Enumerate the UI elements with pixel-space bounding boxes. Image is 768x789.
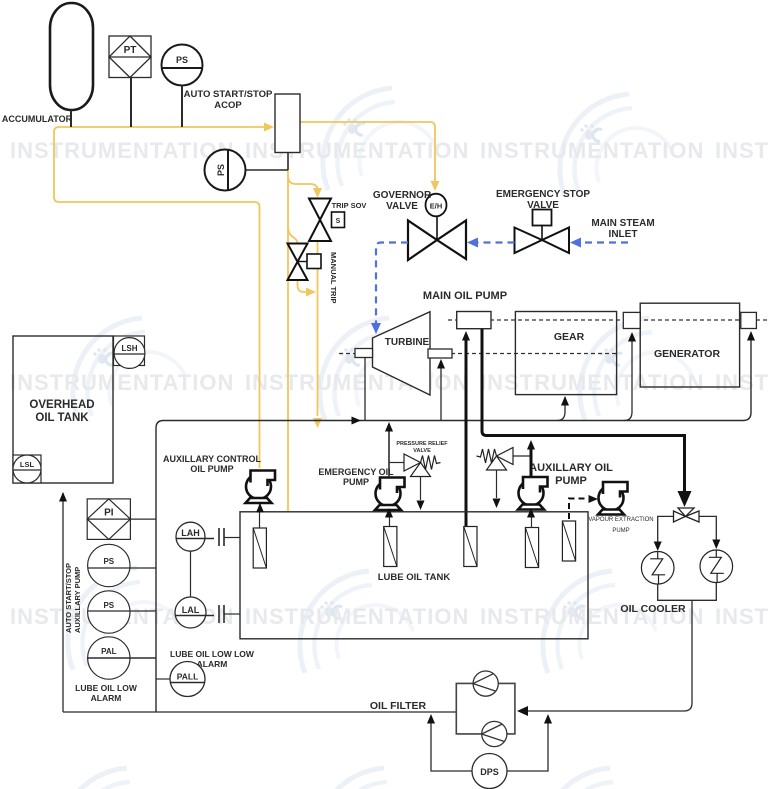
svg-text:PAL: PAL (101, 647, 117, 656)
oil cooler right (700, 550, 733, 583)
svg-text:VALVE: VALVE (527, 200, 559, 211)
svg-text:AUXILLARY PUMP: AUXILLARY PUMP (73, 567, 82, 633)
3-way valve at cooler (674, 508, 700, 522)
strainer 2 (384, 527, 397, 567)
wire valve to right cooler (699, 516, 716, 540)
level alarm high LAH (176, 522, 205, 551)
svg-text:PUMP: PUMP (555, 475, 587, 487)
wire PT stem (130, 78, 132, 128)
level switch high LSH (114, 336, 145, 368)
svg-text:PS: PS (176, 55, 188, 65)
svg-text:INSTRUMENTATION: INSTRUMENTATION (10, 138, 234, 163)
yellow wire elbow into manual trip valve (288, 226, 298, 243)
ACOP control box (275, 94, 300, 153)
accumulator (50, 3, 93, 110)
oil cooler left (641, 552, 674, 585)
svg-text:INSTRUMENTATION: INSTRUMENTATION (10, 370, 234, 395)
svg-text:S: S (336, 218, 341, 225)
pressure alarm low low PALL (170, 662, 205, 697)
level alarm low LAL (175, 597, 206, 628)
turbine right bearing (428, 349, 452, 358)
thick MOP discharge wire to cooler valve (482, 329, 685, 495)
wire header to turbine right bearing (440, 361, 442, 421)
overhead oil tank (13, 336, 113, 483)
wire valve to left cooler (658, 516, 674, 542)
pressure switch PS (rack 1) (88, 544, 130, 586)
svg-text:INLET: INLET (609, 229, 638, 240)
svg-text:VAPOUR EXTRACTION: VAPOUR EXTRACTION (588, 517, 653, 523)
yellow arrow down to E/H (431, 181, 440, 191)
wire LAH-LAL (190, 551, 192, 597)
svg-text:LAH: LAH (181, 528, 200, 538)
svg-text:MAIN OIL PUMP: MAIN OIL PUMP (423, 290, 507, 302)
svg-text:MANUAL TRIP: MANUAL TRIP (329, 252, 338, 304)
svg-text:GEAR: GEAR (554, 331, 585, 343)
wire emergency pump discharge to header (388, 424, 390, 477)
svg-text:PI: PI (104, 508, 114, 519)
svg-text:PUMP: PUMP (612, 528, 629, 534)
wire overhead tank fill line (62, 493, 64, 712)
lube oil tank (240, 512, 588, 639)
svg-text:DPS: DPS (480, 767, 499, 777)
svg-text:AUXILLARY CONTROL: AUXILLARY CONTROL (163, 454, 262, 464)
yellow arrow into ACOP (264, 123, 274, 132)
wire tank to aux pump (527, 508, 535, 518)
generator right bearing (741, 312, 757, 328)
svg-text:OIL FILTER: OIL FILTER (370, 700, 427, 712)
wire header to generator left bearing (624, 334, 632, 421)
differential pressure switch DPS (472, 754, 507, 789)
svg-text:LUBE OIL LOW: LUBE OIL LOW (75, 683, 138, 693)
wire aux pump discharge thick (530, 448, 533, 477)
level switch low LSL (13, 455, 41, 483)
thick MOP suction wire (465, 338, 468, 527)
wire PALL to rack (156, 678, 170, 680)
svg-text:TRIP SOV: TRIP SOV (332, 201, 367, 210)
svg-text:ALARM: ALARM (91, 693, 122, 703)
svg-text:AUXILLARY OIL: AUXILLARY OIL (529, 462, 613, 474)
gear box (515, 312, 616, 395)
wire PS stem (181, 86, 183, 128)
turbine (373, 312, 431, 395)
svg-text:TURBINE: TURBINE (385, 337, 430, 348)
filter element circle 2 (482, 721, 507, 746)
svg-text:ACOP: ACOP (214, 100, 242, 111)
wire rack bottom run to oil filter (63, 711, 456, 713)
yellow wire: ACOP box to governor valve E/H (300, 122, 435, 182)
svg-text:INSTRUMENTATION: INSTRUMENTATION (480, 370, 704, 395)
svg-text:OVERHEAD: OVERHEAD (29, 399, 94, 411)
auxiliary control oil pump (246, 471, 276, 504)
generator left bearing (623, 312, 640, 328)
svg-text:EMERGENCY OIL: EMERGENCY OIL (318, 467, 394, 477)
wire strainer4 to aux pump (531, 508, 533, 528)
strainer 3 (464, 527, 477, 567)
E/H actuator circle (426, 194, 447, 217)
wire cooler return down to filter (521, 600, 692, 711)
blue dashed steam line: inlet to stop valve (578, 241, 628, 243)
vapour extraction pump (598, 482, 628, 515)
arrow on header (352, 417, 362, 425)
svg-text:AUTO START/STOP: AUTO START/STOP (64, 563, 73, 633)
yellow wire: manual trip drain to trip line (298, 280, 309, 292)
svg-text:PS: PS (103, 557, 114, 566)
svg-text:PS: PS (103, 601, 114, 610)
wire accumulator stem (70, 110, 72, 127)
wire cooler bottoms to return (658, 583, 717, 601)
svg-text:VALVE: VALVE (413, 448, 431, 454)
auxiliary oil pump (518, 477, 548, 510)
governor valve GV (436, 216, 438, 240)
yellow wire branch to trip sov (288, 176, 318, 190)
svg-text:E/H: E/H (430, 202, 443, 211)
wire ACOP box to PS2 (287, 153, 289, 171)
pressure switch PS2 (rotated) (205, 150, 246, 191)
relief valve RV2 (510, 455, 531, 457)
strainer 5 (562, 521, 575, 561)
svg-text:INSTRUMENTATION: INSTRUMENTATION (715, 370, 768, 395)
yellow wire: ACOP box down to lube oil tank (287, 170, 289, 511)
blue dashed steam line: stop valve to governor valve (475, 241, 515, 243)
svg-text:OIL PUMP: OIL PUMP (190, 464, 233, 474)
svg-text:INSTRUMENTATION: INSTRUMENTATION (715, 138, 768, 163)
dashed wire strainer5 to VEP (569, 499, 588, 520)
yellow arrow into trip sov (313, 188, 322, 198)
capacitor mark LAL (218, 605, 220, 623)
pressure transmitter PT (109, 36, 151, 78)
svg-text:LUBE OIL TANK: LUBE OIL TANK (378, 572, 451, 583)
strainer 4 (525, 528, 538, 568)
relief valve RV1 (389, 462, 404, 464)
wire tank to emergency pump (388, 511, 390, 513)
svg-text:LSL: LSL (20, 460, 35, 469)
manual trip valve (288, 244, 308, 281)
pressure switch PS (top) (162, 45, 203, 86)
svg-text:LSH: LSH (122, 344, 138, 353)
filter element circle 1 (473, 671, 498, 696)
lube supply header wire (156, 336, 751, 598)
wire RV2 drain (496, 470, 498, 498)
strainer 1 (253, 528, 266, 568)
wire PI to rack (130, 518, 156, 520)
svg-text:VALVE: VALVE (386, 201, 418, 212)
svg-text:INSTRUMENTATION: INSTRUMENTATION (480, 138, 704, 163)
pressure alarm low PAL (88, 637, 130, 679)
yellow wire: trip sov drain down to header (317, 241, 319, 416)
svg-text:AUTO START/STOP: AUTO START/STOP (184, 89, 273, 100)
wire turbine drain to header (364, 358, 366, 421)
svg-text:INSTRUMENTATION: INSTRUMENTATION (245, 604, 469, 629)
svg-text:PS: PS (216, 164, 226, 176)
oil filter assembly (456, 683, 515, 734)
wire header to gear (557, 397, 565, 421)
svg-text:PUMP: PUMP (343, 477, 369, 487)
svg-text:ACCUMULATOR: ACCUMULATOR (2, 114, 73, 124)
svg-text:OIL COOLER: OIL COOLER (620, 603, 686, 615)
wire DPS right tap (507, 722, 548, 771)
emergency oil pump (375, 478, 405, 511)
wire strainer1 to ACOP pump (259, 504, 261, 528)
wire DPS left tap (431, 722, 472, 771)
svg-text:LAL: LAL (182, 605, 200, 615)
turbine left bearing (355, 349, 373, 358)
yellow arrow joining trip line (306, 288, 316, 297)
svg-text:LUBE OIL LOW LOW: LUBE OIL LOW LOW (170, 649, 255, 659)
svg-text:GOVERNOR: GOVERNOR (373, 190, 432, 201)
shaft dashed line lower (turbine-gear) (339, 353, 618, 355)
yellow arrow at header (313, 418, 322, 428)
wire RV1 drain (420, 477, 422, 501)
emergency stop valve (541, 226, 543, 241)
generator box (640, 303, 739, 387)
arrow header to generator right bearing (747, 331, 755, 341)
pressure switch PS (rack 2) (88, 591, 130, 633)
yellow control-oil wire: pump discharge up-left-up to ACOP box (54, 127, 266, 468)
svg-text:PALL: PALL (177, 672, 199, 682)
svg-text:PT: PT (124, 45, 137, 56)
svg-text:EMERGENCY STOP: EMERGENCY STOP (496, 189, 590, 200)
svg-text:PRESSURE RELIEF: PRESSURE RELIEF (396, 441, 448, 447)
svg-text:GENERATOR: GENERATOR (654, 348, 721, 360)
shaft dashed line upper (pump-generator) (448, 319, 768, 321)
capacitor mark LAH (218, 528, 220, 546)
svg-text:MAIN STEAM: MAIN STEAM (591, 218, 654, 229)
wire tank to ACOP pump (259, 505, 261, 512)
main oil pump MOP (457, 312, 491, 329)
blue dashed steam line: governor valve to turbine (376, 243, 408, 326)
svg-text:OIL TANK: OIL TANK (35, 412, 89, 424)
svg-text:INSTRUMENTATION: INSTRUMENTATION (715, 604, 768, 629)
solenoid trip valve TRIP SOV (309, 199, 331, 242)
pressure indicator PI (87, 499, 130, 540)
svg-text:INSTRUMENTATION: INSTRUMENTATION (245, 370, 469, 395)
wire strainer2 to emergency pump (389, 508, 391, 527)
